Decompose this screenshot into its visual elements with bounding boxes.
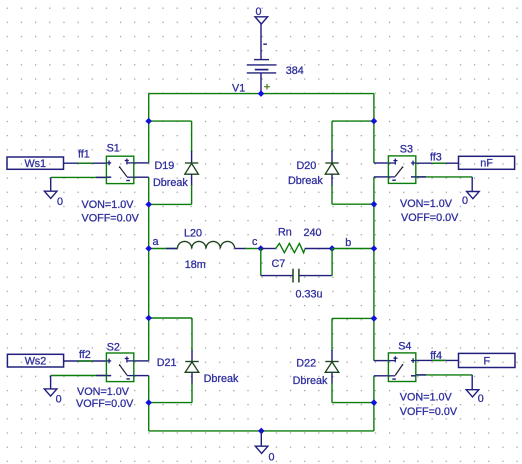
wire D20 branch top bbox=[332, 120, 374, 122]
wire S2 control- vertical to ground bbox=[50, 376, 52, 389]
svg-text:ff3: ff3 bbox=[430, 151, 442, 163]
ground (bottom, node 0) bbox=[255, 446, 268, 453]
wire left vertical lower bbox=[148, 376, 150, 431]
junction right bottom bbox=[371, 399, 378, 406]
wire mid junction to node b bbox=[332, 248, 374, 250]
wire left vertical middle bbox=[148, 177, 150, 361]
svg-text:VOFF=0.0V: VOFF=0.0V bbox=[400, 406, 458, 418]
svg-text:VON=1.0V: VON=1.0V bbox=[400, 392, 453, 404]
svg-text:C7: C7 bbox=[272, 258, 286, 270]
junction bottom rail ground bbox=[258, 428, 265, 435]
svg-text:0: 0 bbox=[462, 195, 468, 207]
svg-text:VON=1.0V: VON=1.0V bbox=[77, 386, 130, 398]
svg-text:VOFF=0.0V: VOFF=0.0V bbox=[82, 212, 140, 224]
svg-text:VOFF=0.0V: VOFF=0.0V bbox=[76, 398, 134, 410]
junction node a bbox=[145, 245, 152, 252]
wire battery negative lead bbox=[260, 24, 262, 60]
wire D20 anode vertical bbox=[331, 174, 333, 186]
wire C7 right horizontal bbox=[299, 275, 332, 277]
wire right vertical upper bbox=[373, 94, 375, 163]
junction right top bbox=[371, 118, 378, 125]
svg-text:ff4: ff4 bbox=[430, 350, 442, 362]
junction right lower-top bbox=[371, 315, 378, 322]
wire C7 left horizontal bbox=[261, 275, 293, 277]
svg-text:S2: S2 bbox=[107, 341, 120, 353]
wire Ws2 to S2 control+ bbox=[64, 360, 107, 362]
wire D19 anode vertical bbox=[191, 174, 193, 186]
wire D19 cathode vertical bbox=[191, 121, 193, 152]
wire node a to inductor bbox=[149, 248, 178, 250]
wire S4 input bottom bbox=[374, 375, 389, 377]
switch S3 bbox=[388, 156, 415, 184]
wire D22 cathode vertical bbox=[331, 318, 333, 351]
diode D22 bbox=[325, 362, 339, 373]
svg-text:VON=1.0V: VON=1.0V bbox=[400, 198, 453, 210]
wire inductor to node c bbox=[235, 248, 246, 250]
svg-text:Rn: Rn bbox=[278, 227, 292, 239]
ground of S3 bbox=[467, 192, 480, 199]
svg-text:240: 240 bbox=[304, 227, 322, 239]
wire bottom ground stub bbox=[260, 431, 262, 446]
stimulus box nF bbox=[459, 156, 515, 169]
svg-text:Ws2: Ws2 bbox=[25, 356, 47, 368]
wire D22 branch top bbox=[332, 317, 374, 319]
svg-text:S3: S3 bbox=[400, 143, 413, 155]
wire D19 branch bottom bbox=[149, 203, 192, 205]
wire D22 branch bottom bbox=[332, 402, 374, 404]
wire D19 branch top bbox=[149, 120, 192, 122]
svg-text:ff2: ff2 bbox=[79, 349, 91, 361]
wire D21 branch bottom bbox=[149, 402, 192, 404]
diode D21 bbox=[185, 362, 199, 373]
wire S2 control- horizontal bbox=[51, 375, 107, 377]
wire S1 output top bbox=[134, 162, 149, 164]
svg-text:0: 0 bbox=[256, 6, 262, 18]
svg-text:D21: D21 bbox=[157, 357, 177, 369]
diode D20 bbox=[325, 163, 339, 174]
wire D21 anode vertical bbox=[191, 372, 193, 384]
svg-text:S4: S4 bbox=[398, 340, 411, 352]
svg-text:S1: S1 bbox=[107, 143, 120, 155]
junction node c bbox=[258, 245, 265, 252]
wire S3 control- horizontal bbox=[416, 176, 472, 178]
wire S4 control- horizontal bbox=[416, 374, 472, 376]
battery V1 minus sign bbox=[263, 43, 267, 45]
svg-text:0: 0 bbox=[269, 451, 275, 463]
wire S2 output bottom bbox=[134, 375, 149, 377]
ground of S1 bbox=[44, 191, 57, 198]
wire D22 anode vertical bbox=[331, 372, 333, 384]
wire S4 input top bbox=[374, 360, 389, 362]
wire S4 control+ to F bbox=[416, 359, 459, 361]
svg-text:0.33u: 0.33u bbox=[296, 289, 323, 301]
svg-text:D22: D22 bbox=[296, 357, 316, 369]
battery V1 plus sign bbox=[264, 84, 270, 90]
switch S4 bbox=[388, 353, 415, 382]
capacitor C7 bbox=[293, 269, 299, 283]
wire top rail bbox=[149, 93, 374, 95]
wire bottom rail bbox=[149, 430, 374, 432]
svg-text:V1: V1 bbox=[232, 83, 245, 95]
wire right vertical middle bbox=[373, 177, 375, 361]
ground of S2 bbox=[44, 389, 57, 396]
stimulus box F bbox=[459, 353, 516, 367]
switch S2 bbox=[106, 353, 133, 382]
svg-text:Dbreak: Dbreak bbox=[288, 175, 323, 187]
switch S1 bbox=[106, 156, 133, 183]
wire S1 output bottom bbox=[134, 176, 149, 178]
junction node b bbox=[371, 245, 378, 252]
svg-text:Dbreak: Dbreak bbox=[293, 375, 328, 387]
wire left vertical upper bbox=[148, 94, 150, 163]
wire right vertical lower bbox=[373, 376, 375, 431]
wire S1 control- horizontal bbox=[51, 176, 107, 178]
junction left mid bbox=[145, 201, 152, 208]
svg-text:VON=1.0V: VON=1.0V bbox=[82, 199, 135, 211]
battery V1 plates bbox=[247, 60, 276, 73]
wire S3 input bottom bbox=[374, 176, 389, 178]
junction left top bbox=[145, 118, 152, 125]
svg-text:384: 384 bbox=[286, 65, 304, 77]
wire S1 control- vertical to ground bbox=[50, 177, 52, 191]
ground of S4 bbox=[466, 390, 479, 397]
resistor Rn bbox=[276, 243, 305, 252]
junction left lower-top bbox=[145, 315, 152, 322]
wire D20 branch bottom bbox=[332, 203, 374, 205]
svg-text:Dbreak: Dbreak bbox=[204, 373, 239, 385]
svg-text:0: 0 bbox=[478, 393, 484, 405]
junction left bottom bbox=[145, 399, 152, 406]
wire node c to resistor bbox=[261, 248, 276, 250]
junction battery-top rail bbox=[258, 90, 265, 97]
svg-text:nF: nF bbox=[480, 158, 493, 170]
svg-text:18m: 18m bbox=[185, 259, 206, 271]
wire Ws1 to S1 control+ bbox=[64, 162, 107, 164]
svg-text:L20: L20 bbox=[184, 228, 202, 240]
wire D21 cathode vertical bbox=[191, 318, 193, 351]
inductor L20 bbox=[177, 241, 234, 248]
svg-text:a: a bbox=[153, 236, 159, 248]
diode D19 bbox=[185, 163, 199, 174]
svg-text:VOFF=0.0V: VOFF=0.0V bbox=[401, 212, 459, 224]
wire S3 input top bbox=[374, 162, 389, 164]
wire C7 left vertical bbox=[260, 249, 262, 276]
svg-text:Ws1: Ws1 bbox=[24, 158, 46, 170]
wire D20 cathode vertical bbox=[331, 121, 333, 152]
svg-text:0: 0 bbox=[56, 393, 62, 405]
svg-text:Dbreak: Dbreak bbox=[153, 177, 188, 189]
wire D21 branch top bbox=[149, 317, 192, 319]
stimulus box Ws1 bbox=[7, 157, 64, 169]
wire resistor to mid junction bbox=[305, 248, 332, 250]
wire S2 output top bbox=[134, 360, 149, 362]
svg-text:0: 0 bbox=[57, 196, 63, 208]
stimulus box Ws2 bbox=[7, 354, 63, 367]
wire S4 control- vertical to ground bbox=[471, 375, 473, 390]
svg-text:F: F bbox=[483, 355, 490, 367]
junction resistor-capacitor right bbox=[329, 245, 336, 252]
svg-text:D19: D19 bbox=[155, 160, 175, 172]
svg-text:D20: D20 bbox=[297, 160, 317, 172]
ground (top, node 0) bbox=[255, 17, 268, 24]
svg-text:b: b bbox=[345, 237, 351, 249]
wire S3 control- vertical to ground bbox=[471, 177, 473, 192]
svg-text:c: c bbox=[252, 236, 258, 248]
wire C7 right vertical bbox=[331, 249, 333, 276]
junction right mid bbox=[371, 201, 378, 208]
wire S3 control+ to nF bbox=[416, 162, 459, 164]
svg-text:ff1: ff1 bbox=[78, 148, 90, 160]
wire battery positive lead bbox=[260, 73, 262, 94]
